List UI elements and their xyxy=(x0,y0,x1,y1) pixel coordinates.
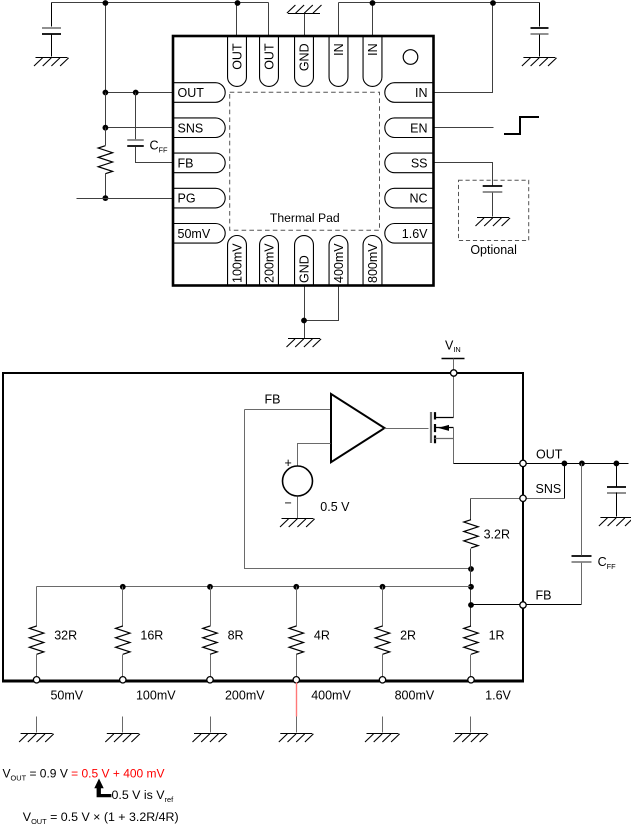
VIN pin circle on box xyxy=(451,370,457,376)
pin OUT (top) pill xyxy=(228,37,247,87)
node junction bus xyxy=(293,584,299,590)
wire IN pin5 riser xyxy=(372,3,374,37)
wire FB row xyxy=(471,604,582,606)
wire CFF to FB pin xyxy=(136,147,173,163)
pin-1 indicator circle xyxy=(403,50,418,65)
svg-text:400mV: 400mV xyxy=(332,243,346,283)
node junction FB loop / divider xyxy=(468,566,474,572)
wire IN pin4 riser xyxy=(338,3,340,37)
node junction OUT/CFF branch xyxy=(133,90,139,96)
node junction OUT/SNS riser xyxy=(562,461,568,467)
arrow annotation (red highlight pointer) xyxy=(94,779,111,798)
node junction OUT/column xyxy=(103,90,109,96)
pin 50mV (left) pill xyxy=(174,224,226,244)
wire C-SS to ground xyxy=(492,193,494,217)
ground above GND top pin (inverted) xyxy=(287,5,322,14)
svg-text:FB: FB xyxy=(265,393,281,407)
wire VIN top rail xyxy=(339,2,540,4)
IC package body U1 xyxy=(173,36,434,286)
node junction bus xyxy=(207,584,213,590)
capacitor C-left xyxy=(42,28,61,34)
wire SNS riser to OUT xyxy=(564,464,566,499)
svg-text:IN: IN xyxy=(415,86,428,100)
pin circle 50mV xyxy=(33,677,39,683)
wire bus to 8R xyxy=(210,587,212,627)
node junction divider/bus xyxy=(468,584,474,590)
resistor 2R xyxy=(375,626,389,654)
wire OUT pin row xyxy=(106,92,173,94)
svg-text:100mV: 100mV xyxy=(136,689,176,703)
ground below IC (GND/400mV) xyxy=(287,339,322,348)
wire 0.5V source to op-amp + xyxy=(298,444,331,467)
ground below 1.6V xyxy=(454,734,489,743)
ground below 800mV xyxy=(365,734,400,743)
svg-text:8R: 8R xyxy=(228,629,244,643)
svg-text:OUT: OUT xyxy=(231,43,245,70)
svg-text:EN: EN xyxy=(410,121,427,135)
svg-text:FB: FB xyxy=(536,589,552,603)
optional dashed box xyxy=(459,180,529,240)
wire 8R to pin xyxy=(210,655,212,679)
wire bus to 32R xyxy=(36,587,38,627)
ground below 100mV xyxy=(105,734,140,743)
wire resistor to PG row xyxy=(105,174,107,199)
wire 1R to pin xyxy=(470,655,472,679)
resistor R-PG (left pull-up) xyxy=(98,146,112,174)
pin OUT (left) pill xyxy=(174,83,226,103)
step waveform symbol at EN xyxy=(504,117,539,134)
pin 200mV (bottom) pill xyxy=(260,235,279,285)
wire SNS to resistor xyxy=(105,128,107,146)
wire column OUT to SNS xyxy=(105,93,107,128)
svg-text:VIN: VIN xyxy=(445,338,461,354)
capacitor CFF (block) riser xyxy=(581,563,583,605)
resistor 16R xyxy=(116,626,130,654)
wire 400mV strap to GND xyxy=(305,286,339,321)
svg-text:0.5 V is Vref: 0.5 V is Vref xyxy=(112,788,175,804)
pin OUT (top) pill xyxy=(260,37,279,87)
wire VOUT top rail xyxy=(52,2,269,4)
svg-text:CFF: CFF xyxy=(598,555,617,571)
svg-text:GND: GND xyxy=(298,255,312,283)
node junction bus xyxy=(120,584,126,590)
svg-text:4R: 4R xyxy=(314,629,330,643)
svg-text:2R: 2R xyxy=(400,629,416,643)
ground below 200mV xyxy=(193,734,228,743)
wire 400mV to ground (red, selected) xyxy=(296,683,298,717)
wire ground stub 50mV xyxy=(36,717,38,733)
resistor 1R xyxy=(464,626,478,654)
svg-text:32R: 32R xyxy=(54,629,77,643)
svg-text:3.2R: 3.2R xyxy=(484,528,510,542)
wire bus to 16R xyxy=(122,587,124,627)
pin NC (right) pill xyxy=(385,188,433,208)
transistor Q1 source stub xyxy=(435,438,454,440)
wire ground stub 400mV xyxy=(296,717,298,733)
pin 100mV (bottom) pill xyxy=(228,235,247,285)
node junction IN riser / rail xyxy=(490,0,496,6)
svg-text:GND: GND xyxy=(298,43,312,71)
wire PG pin row xyxy=(77,198,173,200)
svg-text:1R: 1R xyxy=(489,629,505,643)
wire C-out to ground xyxy=(616,493,618,517)
wire IN right-pin riser xyxy=(434,3,493,93)
node junction OUT/CFF xyxy=(579,461,585,467)
svg-text:PG: PG xyxy=(178,192,196,206)
FB pin circle on box xyxy=(520,602,526,608)
op-amp U2 triangle xyxy=(331,394,385,462)
wire VIN to box xyxy=(453,359,455,371)
pin PG (left) pill xyxy=(174,188,226,208)
transistor Q1 body arrow xyxy=(438,425,449,431)
svg-text:IN: IN xyxy=(332,43,346,56)
svg-text:OUT: OUT xyxy=(263,43,277,70)
node junction rail/left column xyxy=(103,0,109,6)
OUT pin circle on box xyxy=(520,460,526,466)
wire EN pin xyxy=(434,127,494,129)
wire ground stub 1.6V xyxy=(470,717,472,733)
node junction GND/400mV strap xyxy=(301,318,307,324)
svg-text:IN: IN xyxy=(366,43,380,56)
svg-text:−: − xyxy=(285,496,292,510)
capacitor C-SS (optional) xyxy=(483,186,503,192)
wire op-amp output to gate xyxy=(385,428,429,430)
pin 400mV (bottom) pill xyxy=(329,235,348,285)
wire left rail down to OUT row xyxy=(105,3,107,93)
wire FB feedback loop xyxy=(245,410,471,569)
wire SNS branch down to 3.2R xyxy=(470,499,472,520)
wire SNS pin row xyxy=(106,127,173,129)
svg-text:50mV: 50mV xyxy=(50,689,83,703)
capacitor C-IN-right lead xyxy=(539,3,541,27)
pin GND (top) pill xyxy=(295,37,314,87)
resistor 3.2R xyxy=(464,520,478,548)
svg-text:VOUT = 0.5 V × (1 + 3.2R/4R): VOUT = 0.5 V × (1 + 3.2R/4R) xyxy=(23,810,179,825)
svg-text:OUT: OUT xyxy=(178,86,205,100)
wire FET source down to OUT xyxy=(453,428,455,464)
wire 32R to pin xyxy=(36,655,38,679)
pin IN (top) pill xyxy=(363,37,382,87)
node junction OUT pin1 / rail xyxy=(235,0,241,6)
node junction IN pin5 / rail xyxy=(370,0,376,6)
ground below C-out xyxy=(599,518,631,527)
wire C-left to ground xyxy=(51,35,53,57)
wire VIN into box to FET drain xyxy=(453,377,455,418)
wire 2R to pin xyxy=(382,655,384,679)
capacitor C-out xyxy=(607,487,626,493)
VIN terminal bar xyxy=(442,358,465,360)
wire ground stub 200mV xyxy=(210,717,212,733)
capacitor C-IN-left lead xyxy=(51,3,53,27)
svg-text:FB: FB xyxy=(178,157,194,171)
svg-text:SNS: SNS xyxy=(178,121,204,135)
svg-text:1.6V: 1.6V xyxy=(402,227,428,241)
wire OUT row xyxy=(454,463,629,465)
svg-text:800mV: 800mV xyxy=(395,689,435,703)
transistor Q1 body stub xyxy=(435,427,454,429)
resistor 8R xyxy=(203,626,217,654)
ground below 50mV xyxy=(19,734,54,743)
pin EN (right) pill xyxy=(385,118,433,138)
pin GND (bottom) pill xyxy=(295,236,314,285)
svg-text:100mV: 100mV xyxy=(231,243,245,283)
svg-text:OUT: OUT xyxy=(536,447,563,461)
pin circle 800mV xyxy=(379,677,385,683)
node junction SNS/column xyxy=(103,125,109,131)
wire OUT pin2 riser xyxy=(268,3,270,37)
pin IN (right) pill xyxy=(385,83,433,103)
wire SNS row xyxy=(471,498,565,500)
pin 1.6V (right) pill xyxy=(385,224,433,244)
svg-text:+: + xyxy=(285,456,292,470)
svg-text:16R: 16R xyxy=(140,629,163,643)
ground below 400mV xyxy=(279,734,314,743)
voltage source V-REF 0.5V circle xyxy=(283,466,313,496)
svg-text:0.5 V: 0.5 V xyxy=(320,500,350,514)
wire ground stub 100mV xyxy=(122,717,124,733)
svg-text:SNS: SNS xyxy=(536,482,562,496)
resistor 32R xyxy=(29,626,43,654)
block diagram bottom rail (thick) xyxy=(2,680,524,683)
transistor Q1 channel segments xyxy=(434,412,436,443)
wire SS pin xyxy=(434,163,493,187)
svg-text:CFF: CFF xyxy=(150,139,169,155)
svg-text:800mV: 800mV xyxy=(366,243,380,283)
transistor Q1 gate bar xyxy=(430,412,432,443)
svg-text:Optional: Optional xyxy=(470,243,517,257)
svg-text:VOUT = 0.9 V = 0.5 V + 400 mV: VOUT = 0.9 V = 0.5 V + 400 mV xyxy=(3,767,165,783)
wire 3.2R to FB node xyxy=(470,549,472,627)
wire 4R to pin xyxy=(296,655,298,679)
pin SNS (left) pill xyxy=(174,118,226,138)
wire divider bus xyxy=(37,586,471,588)
wire GND top pin riser xyxy=(304,13,306,37)
capacitor CFF (top section) xyxy=(127,140,144,146)
capacitor C-out lead xyxy=(616,464,618,487)
wire ground stub 800mV xyxy=(382,717,384,733)
ground below C-SS xyxy=(476,218,511,227)
wire CFF to OUT xyxy=(581,464,583,556)
wire source to ground xyxy=(297,497,299,519)
node junction PG/column xyxy=(103,195,109,201)
capacitor CFF (block) xyxy=(572,556,592,562)
resistor 4R xyxy=(289,626,303,654)
block diagram outer box xyxy=(3,373,523,681)
wire GND bottom pin to ground xyxy=(304,286,306,339)
ground below C-left xyxy=(34,58,69,67)
wire OUT pin1 riser xyxy=(236,3,238,37)
svg-text:400mV: 400mV xyxy=(311,689,351,703)
svg-text:50mV: 50mV xyxy=(178,227,211,241)
thermal pad (dashed) xyxy=(230,92,380,230)
SNS pin circle on box xyxy=(520,495,526,501)
pin FB (left) pill xyxy=(174,153,226,173)
pin circle 1.6V xyxy=(468,677,474,683)
pin IN (top) pill xyxy=(329,37,348,87)
ground below C-right xyxy=(522,58,557,67)
svg-text:Thermal Pad: Thermal Pad xyxy=(270,211,340,225)
capacitor CFF top lead xyxy=(135,93,137,141)
transistor Q1 drain stub xyxy=(435,417,454,419)
pin circle 400mV xyxy=(293,677,299,683)
wire bus to 2R xyxy=(382,587,384,627)
node junction bus xyxy=(380,584,386,590)
svg-text:NC: NC xyxy=(409,192,427,206)
node junction divider/FB row xyxy=(468,602,474,608)
pin circle 200mV xyxy=(207,677,213,683)
svg-text:1.6V: 1.6V xyxy=(485,689,511,703)
svg-text:200mV: 200mV xyxy=(225,689,265,703)
pin SS (right) pill xyxy=(385,153,433,173)
pin 800mV (bottom) pill xyxy=(363,235,382,285)
svg-text:200mV: 200mV xyxy=(263,243,277,283)
wire bus to 4R xyxy=(296,587,298,627)
wire 16R to pin xyxy=(122,655,124,679)
node junction OUT/C-out xyxy=(614,461,620,467)
wire C-right to ground xyxy=(539,35,541,57)
wire FB to op-amp xyxy=(245,409,331,411)
ground below 0.5V source xyxy=(280,519,315,528)
capacitor C-right xyxy=(531,28,549,34)
pin circle 100mV xyxy=(120,677,126,683)
svg-text:SS: SS xyxy=(411,157,428,171)
